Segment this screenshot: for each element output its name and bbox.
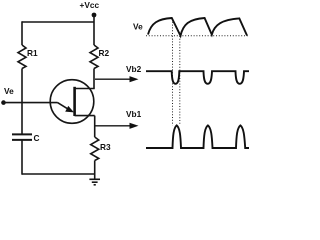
node +Vcc dot <box>92 13 97 18</box>
wire right vertical upper <box>93 15 95 45</box>
wire top horizontal <box>22 21 94 23</box>
wire emitter horizontal <box>4 102 58 104</box>
waveform Ve sawtooth <box>148 18 247 36</box>
svg-text:Vb2: Vb2 <box>126 64 142 74</box>
wire base1 to R3 <box>94 116 96 137</box>
svg-text:Ve: Ve <box>133 22 143 32</box>
svg-text:R3: R3 <box>100 142 111 152</box>
transistor Q1 (UJT) circle <box>50 80 94 124</box>
transistor base bar <box>73 87 76 116</box>
wire left vertical lower <box>21 141 23 175</box>
svg-text:C: C <box>34 133 40 143</box>
arrow to Vb2 <box>95 76 139 82</box>
dotted baseline of Ve plot <box>146 35 249 37</box>
node Ve dot <box>1 100 6 105</box>
dotted vertical at discharge start <box>172 19 174 126</box>
resistor R3 <box>91 137 99 161</box>
ground <box>89 179 100 185</box>
capacitor C <box>12 134 32 140</box>
waveform Vb1 with pulses <box>146 125 249 148</box>
base2 lead <box>75 88 95 90</box>
wire bottom horizontal <box>22 173 95 175</box>
dotted vertical at discharge end <box>179 36 181 126</box>
svg-text:Ve: Ve <box>4 86 14 96</box>
svg-text:R2: R2 <box>99 48 110 58</box>
resistor R2 <box>90 45 98 69</box>
base1 lead <box>75 115 95 117</box>
wire R3 to ground <box>94 161 96 180</box>
svg-text:+Vcc: +Vcc <box>80 0 100 10</box>
wire left vertical middle <box>21 69 23 135</box>
svg-text:R1: R1 <box>27 48 38 58</box>
svg-text:Vb1: Vb1 <box>126 109 142 119</box>
resistor R1 <box>18 45 26 69</box>
wire R2 to base2 <box>93 69 95 89</box>
wire left vertical upper <box>21 21 23 45</box>
arrow to Vb1 <box>95 123 138 129</box>
waveform Vb2 with dips <box>146 71 249 84</box>
emitter lead with arrow <box>58 103 75 113</box>
